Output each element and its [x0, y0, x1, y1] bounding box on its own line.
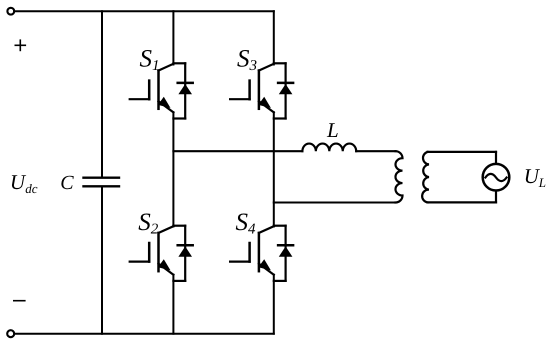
freewheel diode triangle: [178, 84, 192, 94]
svg-text:3: 3: [249, 58, 258, 74]
wire capacitor bus upper: [101, 11, 103, 176]
capacitor C: [84, 178, 120, 187]
wire right leg upper: [273, 11, 275, 64]
wire bridge output right (S3/S4 midpoint to primary): [274, 201, 396, 203]
emitter lead: [159, 101, 174, 112]
freewheel diode cathode bar: [178, 82, 193, 85]
wire left leg middle: [172, 112, 174, 226]
wire right leg middle: [273, 112, 275, 226]
svg-text:S: S: [138, 209, 151, 236]
body bar: [157, 71, 160, 109]
label S3: [237, 45, 257, 74]
wire AC source top stub: [495, 152, 497, 163]
collector lead: [159, 64, 174, 71]
gate bar: [148, 81, 151, 100]
svg-text:L: L: [538, 175, 546, 190]
wire collector stub to diode branch: [173, 62, 185, 64]
transistor S4 (IGBT with anti-parallel diode): [230, 226, 293, 281]
wire AC source bottom stub: [495, 191, 497, 202]
label UL: [524, 164, 546, 190]
wire emitter stub to diode branch: [173, 117, 185, 119]
svg-text:dc: dc: [25, 181, 38, 196]
svg-text:C: C: [60, 172, 74, 194]
minus sign: [14, 300, 25, 302]
terminal top-left: [7, 8, 14, 15]
wire secondary bottom to load: [428, 201, 497, 203]
label Udc: [10, 170, 38, 196]
AC source U_L circle: [483, 164, 510, 191]
svg-text:S: S: [237, 45, 250, 72]
wire left leg upper: [172, 11, 174, 64]
plus sign: [15, 40, 25, 50]
svg-text:1: 1: [152, 58, 160, 74]
svg-text:S: S: [236, 209, 249, 236]
wire top rail: [14, 10, 274, 12]
wire secondary top to load: [428, 151, 497, 153]
gate lead wire: [130, 98, 150, 100]
svg-text:L: L: [326, 118, 339, 142]
transformer primary winding: [395, 151, 402, 202]
sine wave: [485, 174, 506, 181]
emitter arrow: [158, 97, 171, 108]
label S2: [138, 209, 159, 237]
svg-text:2: 2: [151, 221, 159, 237]
wire capacitor bus lower: [101, 188, 103, 334]
wire inductor to transformer primary: [356, 150, 395, 152]
transistor S2 (IGBT with anti-parallel diode): [130, 226, 193, 281]
transistor S1 (IGBT with anti-parallel diode): [130, 63, 193, 118]
wire bottom rail: [14, 333, 274, 335]
transistor S3 (IGBT with anti-parallel diode): [230, 63, 293, 118]
wire bridge output left (S1/S2 midpoint to inductor): [173, 150, 302, 152]
label S1: [140, 45, 160, 74]
wire right leg lower: [273, 275, 275, 334]
label S4: [236, 209, 257, 237]
svg-text:4: 4: [248, 221, 256, 237]
inductor L: [302, 144, 356, 152]
transformer secondary winding: [422, 152, 429, 203]
wire diode branch vertical: [184, 63, 186, 118]
svg-text:S: S: [140, 45, 153, 72]
terminal bottom-left: [7, 330, 14, 337]
wire left leg lower: [172, 275, 174, 334]
